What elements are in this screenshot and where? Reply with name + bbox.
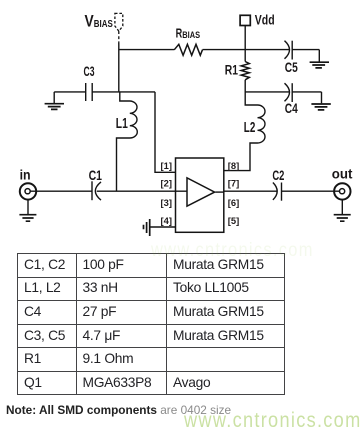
svg-text:[1]: [1] <box>161 160 172 171</box>
svg-text:C1: C1 <box>89 168 102 184</box>
svg-text:BIAS: BIAS <box>182 30 200 40</box>
svg-text:out: out <box>332 167 353 183</box>
svg-text:R1: R1 <box>225 62 239 77</box>
svg-text:Vdd: Vdd <box>255 12 275 28</box>
svg-text:[5]: [5] <box>228 215 239 226</box>
svg-text:L1: L1 <box>116 115 128 132</box>
svg-text:[2]: [2] <box>161 177 172 188</box>
svg-text:[3]: [3] <box>161 197 172 208</box>
svg-text:[4]: [4] <box>161 215 172 226</box>
svg-text:in: in <box>20 168 31 184</box>
svg-text:C4: C4 <box>285 101 298 116</box>
svg-text:C5: C5 <box>285 60 298 75</box>
svg-text:[7]: [7] <box>228 177 239 188</box>
svg-text:C3: C3 <box>84 64 95 79</box>
svg-text:L2: L2 <box>244 119 256 136</box>
svg-text:[8]: [8] <box>228 160 239 171</box>
svg-text:V: V <box>85 11 95 30</box>
svg-text:BIAS: BIAS <box>94 18 113 30</box>
svg-text:[6]: [6] <box>228 197 239 208</box>
svg-text:C2: C2 <box>272 168 284 184</box>
